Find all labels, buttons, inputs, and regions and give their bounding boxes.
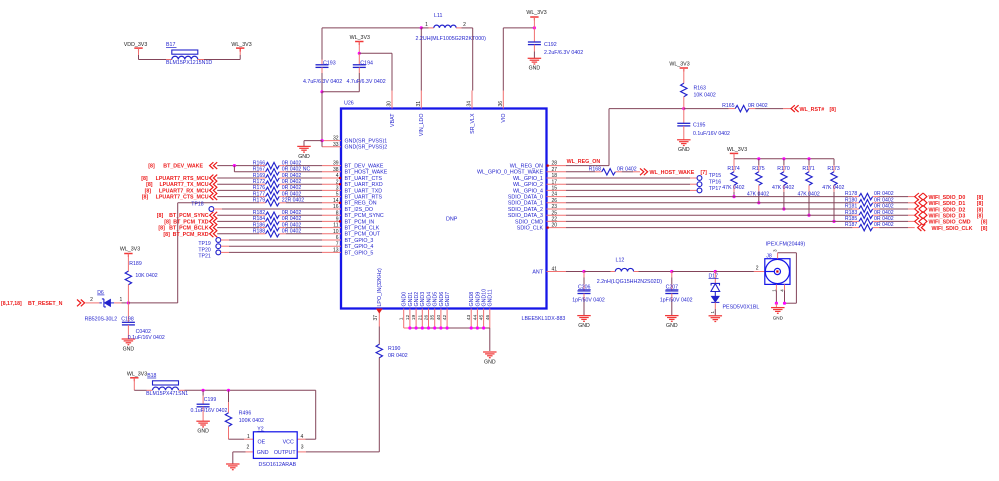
svg-text:0R 0402: 0R 0402 [282, 179, 302, 185]
svg-text:SDIO_DATA_3: SDIO_DATA_3 [508, 213, 543, 219]
svg-text:GND11: GND11 [488, 289, 494, 306]
svg-text:WL_RST#: WL_RST# [800, 107, 825, 113]
svg-text:WL_3V3: WL_3V3 [727, 147, 747, 153]
svg-text:1: 1 [710, 311, 715, 314]
svg-text:DNP: DNP [446, 217, 458, 223]
svg-text:1: 1 [771, 289, 776, 292]
svg-text:GND: GND [678, 147, 690, 153]
svg-text:LPUART7_CTS_MCU: LPUART7_CTS_MCU [156, 195, 209, 201]
svg-text:0R 0402: 0R 0402 [617, 166, 637, 172]
svg-text:GND2: GND2 [414, 292, 420, 307]
svg-text:21: 21 [417, 314, 423, 320]
svg-text:1pF/50V 0402: 1pF/50V 0402 [572, 298, 605, 304]
svg-text:36: 36 [498, 101, 504, 107]
svg-text:1: 1 [247, 434, 250, 440]
svg-text:SDIO_CLK: SDIO_CLK [517, 226, 544, 232]
svg-text:R175: R175 [752, 166, 765, 172]
svg-text:0R 0402: 0R 0402 [874, 222, 894, 228]
svg-text:PESD5V0X1BL: PESD5V0X1BL [723, 305, 760, 311]
svg-text:4.7uF/6.3V 0402: 4.7uF/6.3V 0402 [303, 79, 342, 85]
svg-text:VIO: VIO [501, 114, 507, 123]
svg-text:2: 2 [463, 22, 466, 28]
svg-text:13: 13 [333, 248, 339, 254]
svg-text:BT_GPIO_4: BT_GPIO_4 [345, 244, 374, 250]
svg-text:[8]: [8] [157, 213, 164, 219]
svg-text:39: 39 [333, 161, 339, 167]
svg-text:35: 35 [430, 314, 436, 320]
svg-text:22: 22 [552, 217, 558, 223]
svg-text:R169: R169 [253, 173, 266, 179]
svg-text:47K 0402: 47K 0402 [822, 185, 844, 191]
svg-text:4: 4 [336, 173, 339, 179]
svg-text:[8,17,18]: [8,17,18] [1, 301, 22, 307]
svg-text:[8]: [8] [141, 176, 148, 182]
svg-text:GND7: GND7 [445, 292, 451, 307]
svg-text:ANT: ANT [532, 269, 543, 275]
svg-text:BT_PCM_IN: BT_PCM_IN [345, 219, 375, 225]
svg-text:BT_HOST_WAKE: BT_HOST_WAKE [345, 170, 388, 176]
svg-text:R172: R172 [253, 179, 266, 185]
svg-text:VBAT: VBAT [390, 113, 396, 127]
svg-text:L12: L12 [616, 258, 625, 264]
svg-text:BT_I2S_DO: BT_I2S_DO [345, 207, 374, 213]
svg-text:12: 12 [405, 314, 411, 320]
svg-text:BT_UART_CTS: BT_UART_CTS [345, 176, 383, 182]
svg-text:R173: R173 [827, 166, 840, 172]
svg-text:0R 0402 NC: 0R 0402 NC [282, 167, 311, 173]
svg-text:4: 4 [301, 434, 304, 440]
svg-text:[8]: [8] [148, 164, 155, 170]
svg-text:BT_DEV_WAKE: BT_DEV_WAKE [163, 164, 203, 170]
svg-text:R174: R174 [727, 166, 740, 172]
svg-text:0R 0402: 0R 0402 [388, 353, 408, 359]
svg-text:GND: GND [773, 316, 784, 321]
svg-text:GND8: GND8 [469, 292, 475, 307]
svg-text:3: 3 [301, 444, 304, 450]
svg-text:0R 0402: 0R 0402 [874, 204, 894, 210]
svg-text:7: 7 [336, 241, 339, 247]
svg-text:LPUART7_TX_MCU: LPUART7_TX_MCU [159, 182, 208, 188]
svg-text:C192: C192 [544, 42, 557, 48]
svg-text:R176: R176 [253, 185, 266, 191]
svg-text:BT_PCM_BCLK: BT_PCM_BCLK [169, 226, 209, 232]
svg-text:6: 6 [336, 235, 339, 241]
svg-text:LPUART7_RTS_MCU: LPUART7_RTS_MCU [156, 176, 209, 182]
svg-text:[8]: [8] [164, 219, 171, 225]
svg-text:BT_PCM_TXD: BT_PCM_TXD [173, 219, 208, 225]
svg-text:R184: R184 [253, 216, 266, 222]
svg-text:TP18: TP18 [191, 202, 204, 208]
svg-text:R188: R188 [253, 229, 266, 235]
svg-text:42: 42 [442, 314, 448, 320]
svg-text:23: 23 [552, 204, 558, 210]
svg-text:10: 10 [333, 229, 339, 235]
svg-text:R180: R180 [845, 197, 858, 203]
svg-text:14: 14 [333, 198, 339, 204]
svg-text:BT_PCM_SYNC: BT_PCM_SYNC [169, 213, 209, 219]
svg-text:R179: R179 [253, 198, 266, 204]
svg-text:43: 43 [466, 314, 472, 320]
svg-text:18: 18 [552, 173, 558, 179]
svg-text:2: 2 [90, 297, 93, 303]
svg-text:WIFI_SDIO_D1: WIFI_SDIO_D1 [929, 201, 966, 207]
svg-text:L11: L11 [434, 13, 442, 19]
svg-text:VCC: VCC [283, 440, 294, 446]
svg-text:3: 3 [772, 249, 777, 252]
svg-text:3: 3 [336, 186, 339, 192]
svg-text:[7]: [7] [701, 170, 708, 176]
svg-text:WIFI_SDIO_D3: WIFI_SDIO_D3 [929, 214, 966, 220]
svg-text:0R 0402: 0R 0402 [282, 191, 302, 197]
svg-text:2.2nH(LQG15HH2N2S02D): 2.2nH(LQG15HH2N2S02D) [597, 279, 663, 285]
svg-text:GND3: GND3 [420, 292, 426, 307]
svg-text:28: 28 [552, 161, 558, 167]
svg-text:OUTPUT: OUTPUT [274, 450, 297, 456]
svg-text:WL_3V3: WL_3V3 [231, 42, 251, 48]
svg-text:BT_UART_RTS: BT_UART_RTS [345, 195, 383, 201]
svg-text:8: 8 [336, 210, 339, 216]
svg-text:WIFI_SDIO_CMD: WIFI_SDIO_CMD [929, 220, 971, 226]
svg-text:WL_GPIO_1: WL_GPIO_1 [513, 176, 543, 182]
svg-text:GND: GND [529, 66, 541, 72]
svg-text:0R 0402: 0R 0402 [874, 197, 894, 203]
svg-text:VIN_LDO: VIN_LDO [419, 114, 425, 137]
svg-text:WL_HOST_WAKE: WL_HOST_WAKE [650, 170, 695, 176]
svg-text:[8]: [8] [977, 201, 984, 207]
svg-text:5: 5 [336, 192, 339, 198]
svg-text:BT_PCM_RXD: BT_PCM_RXD [173, 232, 209, 238]
svg-text:15: 15 [552, 186, 558, 192]
svg-text:10K 0402: 10K 0402 [135, 273, 157, 279]
svg-text:10K 0402: 10K 0402 [694, 92, 716, 98]
svg-text:0.1uF/16V 0402: 0.1uF/16V 0402 [128, 335, 165, 341]
svg-text:LBEE5KL1DX-883: LBEE5KL1DX-883 [522, 316, 566, 322]
svg-text:40: 40 [436, 314, 442, 320]
svg-text:44: 44 [472, 314, 478, 320]
svg-text:38: 38 [333, 167, 339, 173]
svg-text:0R 0402: 0R 0402 [282, 216, 302, 222]
svg-text:1: 1 [425, 22, 428, 28]
svg-text:IPEX.FM(20449): IPEX.FM(20449) [766, 242, 806, 248]
svg-text:R185: R185 [845, 216, 858, 222]
svg-text:SR_VLX: SR_VLX [470, 113, 476, 134]
svg-text:0R 0402: 0R 0402 [282, 222, 302, 228]
svg-text:34: 34 [467, 101, 473, 107]
svg-text:BLM15PX1215N1D: BLM15PX1215N1D [166, 60, 212, 66]
svg-text:DSO1612ARAB: DSO1612ARAB [259, 462, 297, 468]
svg-text:19: 19 [411, 314, 417, 320]
svg-text:SDIO_DATA_1: SDIO_DATA_1 [508, 201, 543, 207]
svg-text:R177: R177 [253, 191, 266, 197]
svg-text:R168: R168 [589, 166, 602, 172]
svg-text:R187: R187 [845, 222, 858, 228]
svg-text:33: 33 [333, 142, 339, 148]
svg-text:R182: R182 [253, 210, 266, 216]
svg-text:0R 0402: 0R 0402 [874, 191, 894, 197]
svg-text:R167: R167 [253, 167, 266, 173]
svg-text:47K 0402: 47K 0402 [772, 185, 794, 191]
svg-text:0R 0402: 0R 0402 [874, 216, 894, 222]
svg-text:[8]: [8] [981, 226, 988, 232]
svg-text:WL_GPIO_0_HOST_WAKE: WL_GPIO_0_HOST_WAKE [477, 170, 544, 176]
svg-text:R170: R170 [777, 166, 790, 172]
svg-text:[8]: [8] [142, 195, 149, 201]
svg-text:[8]: [8] [158, 226, 165, 232]
svg-text:GND10: GND10 [482, 289, 488, 307]
svg-text:OE: OE [258, 440, 266, 446]
svg-text:WL_GPIO_4: WL_GPIO_4 [513, 188, 543, 194]
svg-text:16: 16 [333, 204, 339, 210]
svg-text:R183: R183 [845, 210, 858, 216]
svg-text:32: 32 [333, 136, 339, 142]
svg-text:BT_GPIO_3: BT_GPIO_3 [345, 238, 374, 244]
svg-text:GND1: GND1 [408, 292, 414, 307]
svg-text:GND4: GND4 [426, 292, 432, 307]
svg-text:GND5: GND5 [433, 292, 439, 307]
svg-text:LPUART7_RX_MCU: LPUART7_RX_MCU [159, 188, 209, 194]
svg-text:BT_UART_RXD: BT_UART_RXD [345, 182, 383, 188]
svg-text:100K 0402: 100K 0402 [239, 418, 264, 424]
svg-text:[8]: [8] [145, 188, 152, 194]
svg-text:GND(SR_PVSS)1: GND(SR_PVSS)1 [345, 139, 388, 145]
svg-text:WL_GPIO_2: WL_GPIO_2 [513, 182, 543, 188]
svg-text:0R 0402: 0R 0402 [282, 173, 302, 179]
svg-text:R181: R181 [845, 204, 858, 210]
svg-text:GND: GND [484, 359, 496, 365]
svg-text:0R 0402: 0R 0402 [282, 210, 302, 216]
svg-text:1pF/50V 0402: 1pF/50V 0402 [660, 298, 693, 304]
svg-text:17: 17 [552, 179, 558, 185]
svg-text:LPO_IN(32KHz): LPO_IN(32KHz) [377, 268, 383, 307]
svg-text:0R 0402: 0R 0402 [282, 160, 302, 166]
svg-text:GND0: GND0 [402, 292, 408, 307]
svg-text:C193: C193 [323, 60, 336, 66]
svg-text:[8]: [8] [977, 214, 984, 220]
svg-text:SDIO_DATA_2: SDIO_DATA_2 [508, 207, 543, 213]
svg-text:30: 30 [387, 101, 393, 107]
svg-text:47K 0402: 47K 0402 [722, 185, 744, 191]
svg-text:BT_PCM_SYNC: BT_PCM_SYNC [345, 213, 384, 219]
svg-text:R186: R186 [253, 222, 266, 228]
svg-text:C195: C195 [693, 123, 706, 129]
svg-text:WL_3V3: WL_3V3 [526, 10, 546, 16]
svg-text:2: 2 [247, 444, 250, 450]
svg-text:R178: R178 [845, 191, 858, 197]
svg-text:2.2uF/6.3V 0402: 2.2uF/6.3V 0402 [544, 50, 583, 56]
svg-text:BLM15PX471SN1: BLM15PX471SN1 [146, 391, 188, 397]
svg-text:WL_REG_ON: WL_REG_ON [567, 159, 601, 165]
svg-text:BT_REG_ON: BT_REG_ON [345, 201, 377, 207]
svg-text:TP21: TP21 [198, 254, 211, 260]
svg-text:R163: R163 [694, 86, 707, 92]
svg-text:TP19: TP19 [198, 241, 211, 247]
svg-text:WIFI_SDIO_D0: WIFI_SDIO_D0 [929, 195, 966, 201]
svg-text:0R 0402: 0R 0402 [282, 185, 302, 191]
svg-text:R190: R190 [388, 346, 401, 352]
svg-text:25: 25 [552, 210, 558, 216]
svg-text:45: 45 [479, 314, 485, 320]
svg-text:0R 0402: 0R 0402 [282, 229, 302, 235]
svg-text:R496: R496 [239, 410, 252, 416]
svg-text:2: 2 [756, 265, 759, 271]
svg-text:37: 37 [373, 315, 379, 321]
svg-text:WL_REG_ON: WL_REG_ON [510, 164, 543, 170]
svg-text:WIFI_SDIO_CLK: WIFI_SDIO_CLK [932, 226, 973, 232]
svg-text:GND: GND [257, 450, 269, 456]
svg-text:26: 26 [552, 198, 558, 204]
svg-text:SDIO_CMD: SDIO_CMD [515, 219, 543, 225]
svg-text:C198: C198 [121, 316, 134, 322]
svg-text:WL_3V3: WL_3V3 [350, 35, 370, 41]
svg-text:GND: GND [578, 323, 590, 329]
svg-text:GND: GND [666, 323, 678, 329]
svg-text:GND: GND [123, 346, 135, 352]
svg-text:[8]: [8] [146, 182, 153, 188]
svg-text:9: 9 [336, 217, 339, 223]
svg-text:WL_3V3: WL_3V3 [120, 247, 140, 253]
svg-text:20: 20 [552, 223, 558, 229]
svg-text:[8]: [8] [977, 207, 984, 213]
svg-text:0R 0402: 0R 0402 [748, 103, 768, 109]
svg-text:TP16: TP16 [709, 180, 722, 186]
svg-text:GND9: GND9 [475, 292, 481, 307]
svg-text:0.1uF/16V 0402: 0.1uF/16V 0402 [693, 131, 730, 137]
svg-text:R165: R165 [722, 103, 735, 109]
svg-text:0.1uF/16V 0402: 0.1uF/16V 0402 [191, 408, 228, 414]
svg-text:31: 31 [416, 101, 422, 107]
svg-text:TP15: TP15 [709, 173, 722, 179]
svg-text:[8]: [8] [830, 107, 837, 113]
svg-text:24: 24 [552, 192, 558, 198]
svg-text:R189: R189 [129, 261, 142, 267]
svg-text:BT_UART_TXD: BT_UART_TXD [345, 188, 383, 194]
svg-text:2: 2 [336, 179, 339, 185]
svg-text:GND: GND [197, 429, 209, 435]
svg-text:C199: C199 [204, 397, 217, 403]
svg-text:GND6: GND6 [439, 292, 445, 307]
svg-text:46: 46 [485, 314, 491, 320]
svg-text:RB520S-30L2: RB520S-30L2 [85, 316, 118, 322]
svg-text:WL_3V3: WL_3V3 [127, 371, 147, 377]
svg-text:TP20: TP20 [198, 247, 211, 253]
svg-text:WL_3V3: WL_3V3 [669, 62, 689, 68]
svg-text:GND: GND [298, 154, 310, 160]
svg-text:22R 0402: 22R 0402 [282, 198, 305, 204]
svg-text:BT_PCM_CLK: BT_PCM_CLK [345, 226, 380, 232]
svg-text:11: 11 [333, 223, 338, 229]
svg-text:R166: R166 [253, 160, 266, 166]
svg-text:27: 27 [552, 167, 558, 173]
svg-text:BT_DEV_WAKE: BT_DEV_WAKE [345, 164, 384, 170]
svg-text:R171: R171 [802, 166, 815, 172]
svg-text:4.7uF/6.3V 0402: 4.7uF/6.3V 0402 [347, 79, 386, 85]
svg-text:26: 26 [424, 314, 430, 320]
svg-text:2.2UH(MLF1005G2R2KT000): 2.2UH(MLF1005G2R2KT000) [416, 36, 487, 42]
svg-text:BT_GPIO_5: BT_GPIO_5 [345, 250, 374, 256]
svg-text:BT_PCM_OUT: BT_PCM_OUT [345, 232, 381, 238]
svg-text:4: 4 [779, 289, 784, 292]
svg-text:C194: C194 [360, 60, 373, 66]
svg-text:0R 0402: 0R 0402 [874, 210, 894, 216]
svg-text:U26: U26 [344, 101, 354, 107]
svg-text:[8]: [8] [163, 232, 170, 238]
svg-text:1: 1 [399, 317, 405, 320]
svg-text:WIFI_SDIO_D2: WIFI_SDIO_D2 [929, 207, 966, 213]
svg-text:BT_RESET_N: BT_RESET_N [28, 301, 63, 307]
svg-text:GND(SR_PVSS)2: GND(SR_PVSS)2 [345, 145, 388, 151]
svg-text:[8]: [8] [977, 195, 984, 201]
svg-text:[8]: [8] [981, 220, 988, 226]
svg-text:TP17: TP17 [709, 186, 722, 192]
svg-text:1: 1 [120, 297, 123, 303]
svg-text:41: 41 [552, 267, 558, 273]
svg-text:SDIO_DATA_0: SDIO_DATA_0 [508, 195, 543, 201]
svg-text:VDD_3V3: VDD_3V3 [124, 42, 148, 48]
